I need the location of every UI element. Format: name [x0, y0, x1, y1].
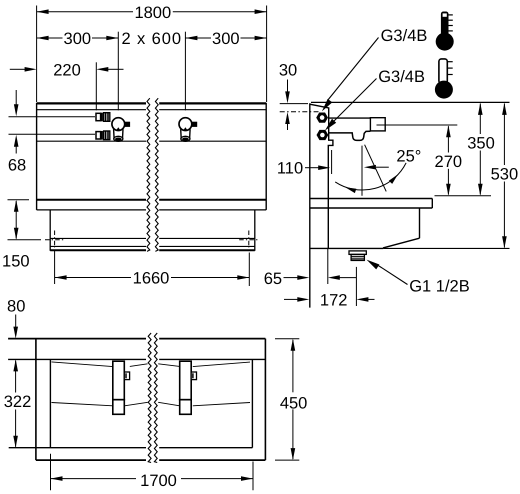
side view rim: [310, 199, 433, 209]
svg-text:G1 1/2B: G1 1/2B: [409, 278, 470, 296]
tap side view body: [329, 118, 385, 141]
plan view break zigzag: [148, 333, 157, 463]
svg-text:300: 300: [212, 30, 240, 48]
svg-text:300: 300: [64, 30, 92, 48]
dimension 530: [491, 103, 519, 248]
hex connection upper: [317, 113, 327, 122]
dimension 270: [435, 125, 463, 196]
dimension 1800: [37, 4, 267, 102]
thermometer hot: [436, 12, 454, 51]
dimension 1660: [55, 250, 250, 288]
svg-text:350: 350: [467, 135, 495, 153]
svg-text:2 x 600: 2 x 600: [121, 30, 181, 48]
dimension 172: [284, 267, 375, 310]
wall connection fitting lower: [96, 131, 110, 140]
tap 1 plan view: [113, 361, 130, 414]
dimension 30: [279, 61, 319, 130]
svg-text:30: 30: [279, 61, 297, 79]
bottom reference line for 530: [383, 247, 509, 249]
front view trough outline: [37, 103, 267, 210]
arrow to spout axis: [364, 165, 389, 170]
svg-text:450: 450: [280, 395, 308, 413]
tap 2 plan view: [180, 361, 197, 414]
dimension 110 label: [277, 150, 332, 177]
dimension 220: [10, 61, 124, 110]
svg-text:1660: 1660: [133, 270, 170, 288]
drain fitting: [349, 251, 366, 260]
leader line to lower fitting: [9, 133, 96, 135]
svg-text:172: 172: [320, 292, 348, 310]
25 degree slant line: [365, 145, 387, 192]
hex connection lower: [317, 131, 327, 140]
dimension 150: [2, 200, 41, 270]
bottom tick for 270/350: [435, 195, 492, 197]
25 degree arc: [335, 163, 406, 190]
svg-text:80: 80: [7, 297, 25, 315]
label G3/4B lower with leader: [325, 68, 425, 131]
dimension 300 right: [185, 30, 266, 110]
svg-text:322: 322: [4, 393, 32, 411]
fixing centre mark right: [239, 231, 258, 248]
svg-text:G3/4B: G3/4B: [378, 68, 425, 86]
dimension 300 left: [37, 30, 119, 110]
side view top reference line: [311, 101, 510, 103]
plan view outer box: [8, 339, 265, 461]
plan view back ledge line: [8, 358, 265, 360]
front view under-structure: [50, 210, 255, 251]
svg-text:530: 530: [491, 166, 519, 184]
plan basin contour lines: [52, 362, 251, 406]
tap 1 front view: [112, 118, 130, 142]
dimension 68: [8, 90, 26, 175]
spout outlet line to 270 dim: [377, 124, 458, 126]
svg-text:65: 65: [264, 270, 282, 288]
dimension 450: [275, 339, 307, 460]
dimension 322: [4, 361, 32, 448]
wall connection fitting upper: [96, 113, 110, 122]
side view bowl: [310, 208, 420, 248]
spout axis line: [361, 146, 363, 196]
dimension 1700: [51, 454, 254, 490]
svg-text:68: 68: [8, 157, 26, 175]
thermometer cold: [435, 59, 453, 99]
svg-text:G3/4B: G3/4B: [381, 27, 428, 45]
dimension 350: [467, 103, 495, 196]
svg-text:25°: 25°: [396, 147, 421, 165]
svg-text:150: 150: [2, 252, 30, 270]
side view wall line: [309, 103, 311, 307]
dimension 80: [7, 297, 25, 371]
front view break zigzag: [147, 98, 158, 251]
label G3/4B upper with leader: [322, 27, 427, 111]
side view mounting plate: [310, 104, 333, 248]
plan view inner bowl box: [9, 359, 253, 447]
label G1 1/2B with leader: [367, 260, 470, 296]
fixing centre mark left: [45, 231, 64, 248]
dimension 65: [264, 249, 357, 288]
svg-text:220: 220: [53, 61, 81, 79]
svg-text:270: 270: [435, 153, 463, 171]
svg-text:1800: 1800: [134, 4, 171, 22]
tap 2 front view: [179, 118, 197, 142]
svg-text:1700: 1700: [140, 472, 177, 490]
svg-text:110: 110: [277, 159, 303, 177]
leader line to upper fitting: [9, 116, 96, 118]
